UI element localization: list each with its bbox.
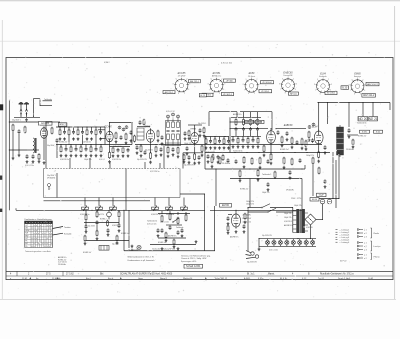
svg-text:0,5M 220 5n: 0,5M 220 5n bbox=[82, 141, 91, 143]
tube socket diagram EABC80 bbox=[279, 72, 297, 95]
wire bbox=[322, 204, 324, 220]
tube name V2 bbox=[105, 125, 113, 128]
wire bbox=[118, 218, 120, 224]
wire grid rail bbox=[56, 126, 105, 128]
capacitor C30 bbox=[256, 127, 259, 131]
capacitor C15 bbox=[127, 148, 130, 153]
legend row 5 bbox=[336, 239, 350, 242]
ground bbox=[116, 241, 119, 244]
wire bbox=[236, 112, 238, 117]
wire bbox=[312, 164, 314, 196]
svg-text:100pF 27k: 100pF 27k bbox=[262, 192, 270, 194]
capacitor C54 bbox=[107, 228, 110, 233]
wire bbox=[15, 208, 17, 210]
svg-text:7: 7 bbox=[280, 89, 281, 91]
resistor R60 bbox=[239, 170, 241, 178]
svg-text:ECC85: ECC85 bbox=[41, 122, 49, 125]
text ta chain 1 bbox=[160, 222, 169, 224]
wire transformer primary rail bbox=[292, 208, 294, 233]
capacitor C48 bbox=[299, 158, 302, 163]
capacitor C37 bbox=[207, 154, 210, 159]
svg-text:Masst.: Masst. bbox=[268, 273, 275, 276]
ground bbox=[115, 140, 118, 143]
legend row 4 bbox=[336, 236, 350, 239]
resistor R39 bbox=[205, 138, 207, 144]
wire bbox=[85, 210, 87, 215]
wire tast drop bbox=[128, 210, 130, 248]
wire bbox=[177, 212, 179, 215]
note above line bbox=[152, 248, 175, 251]
label label box14 ECC85 bbox=[39, 122, 53, 126]
lamp LA9 bbox=[137, 245, 141, 249]
svg-text:2: 2 bbox=[256, 79, 257, 81]
svg-text:Druck 2. Aufl.: Druck 2. Aufl. bbox=[338, 277, 351, 280]
ground bbox=[177, 247, 180, 250]
coil L1 ferrite bbox=[33, 138, 36, 153]
resistor R58 bbox=[283, 157, 285, 165]
text mixer values bbox=[113, 146, 121, 148]
svg-text:Tonblende: Tonblende bbox=[44, 99, 52, 101]
text tast 2 bbox=[100, 219, 107, 221]
resistor R70 bbox=[116, 235, 118, 242]
wire bbox=[82, 135, 84, 145]
text pot 4 bbox=[166, 214, 174, 216]
wire bbox=[68, 135, 70, 145]
wire dipole feed bbox=[40, 105, 52, 107]
trimmer CT3 bbox=[125, 126, 128, 129]
wire bbox=[228, 137, 230, 140]
resistor R11 bbox=[80, 146, 82, 152]
svg-text:ZF 460kHz: ZF 460kHz bbox=[222, 163, 230, 165]
svg-text:a 1: a 1 bbox=[364, 242, 367, 244]
resistor R78 bbox=[227, 225, 229, 232]
svg-text:ECH81 2: ECH81 2 bbox=[100, 219, 107, 221]
svg-text:ND 208-1: ND 208-1 bbox=[327, 93, 336, 95]
ground bbox=[308, 139, 311, 142]
wire bbox=[232, 136, 234, 138]
svg-text:ECH81 2a7: ECH81 2a7 bbox=[280, 149, 289, 151]
ground bbox=[267, 188, 270, 191]
wire left rail bbox=[8, 100, 10, 210]
node bbox=[257, 117, 258, 118]
resistor R72 bbox=[169, 213, 171, 221]
ground bbox=[77, 137, 80, 140]
svg-text:4,7k 0,1: 4,7k 0,1 bbox=[99, 159, 105, 161]
wire bbox=[100, 138, 106, 140]
svg-text:ECH81 2a7: ECH81 2a7 bbox=[240, 189, 248, 191]
text lamp rail bbox=[262, 235, 272, 237]
wire rail 1 bbox=[230, 144, 322, 146]
dial lamp LA7 bbox=[304, 239, 308, 246]
ground bbox=[205, 146, 208, 149]
wire bbox=[131, 249, 133, 251]
text transformer taps bbox=[284, 213, 292, 227]
wire antenna loop left bbox=[33, 99, 35, 118]
tube socket diagram EF89 bbox=[243, 72, 261, 95]
text values 2 bbox=[82, 141, 91, 143]
wire bbox=[60, 145, 62, 148]
svg-text:ND 20: ND 20 bbox=[358, 117, 367, 121]
svg-text:a 1: a 1 bbox=[364, 254, 367, 256]
wire bbox=[348, 103, 350, 128]
wire bbox=[347, 134, 358, 136]
svg-text:ZF 460kHz: ZF 460kHz bbox=[58, 264, 66, 266]
svg-text:Tg. 61: Tg. 61 bbox=[318, 278, 325, 280]
svg-text:Ers.f.: Ers.f. bbox=[86, 277, 91, 280]
resistor R40 bbox=[214, 138, 216, 144]
resistor R57 bbox=[259, 157, 261, 165]
resistor R1 bbox=[12, 124, 14, 132]
label label box8 ZF 305-1 bbox=[259, 90, 272, 93]
ground ant bbox=[25, 118, 28, 121]
resistor R13 bbox=[100, 146, 102, 152]
svg-text:Kontakte: Kontakte bbox=[64, 232, 71, 235]
resistor R55 bbox=[243, 156, 245, 164]
label label box3 ZF 301 bbox=[202, 93, 213, 96]
svg-text:x: x bbox=[32, 246, 33, 248]
ground bbox=[183, 160, 186, 163]
svg-text:0,5M 220 5n: 0,5M 220 5n bbox=[58, 262, 67, 264]
resistor R7 bbox=[86, 129, 88, 135]
wire bbox=[59, 127, 61, 130]
ground bbox=[107, 233, 110, 236]
ground bbox=[211, 165, 214, 168]
resistor R38 bbox=[257, 138, 259, 144]
svg-text:Gepr.: Gepr. bbox=[138, 277, 144, 280]
text tast 5 bbox=[83, 252, 91, 254]
wire tie 2 bbox=[166, 224, 182, 226]
potentiometer P4 bbox=[152, 206, 159, 211]
wire B+ drop 2 bbox=[335, 160, 337, 208]
label label box6 ZF 300 bbox=[224, 79, 236, 82]
resistor R74 bbox=[185, 214, 187, 222]
ground bbox=[108, 160, 111, 163]
svg-text:100pF 27k: 100pF 27k bbox=[294, 205, 302, 207]
dial lamp LA6 bbox=[298, 239, 302, 246]
text v2 values bbox=[112, 159, 121, 161]
wire bbox=[247, 136, 249, 138]
capacitor C40 bbox=[286, 131, 289, 136]
svg-text:3: 3 bbox=[296, 83, 297, 85]
capacitor C62 bbox=[227, 216, 230, 221]
svg-text:100pF 27k: 100pF 27k bbox=[84, 159, 92, 161]
label label box21 B 40 bbox=[374, 130, 383, 133]
svg-text:Werkst.14: Werkst.14 bbox=[183, 277, 193, 280]
resistor R46 bbox=[281, 136, 283, 144]
wire rail 0 bbox=[164, 144, 230, 146]
svg-text:SCHALTPLAN AT-SUPER 97a/3D A: SCHALTPLAN AT-SUPER 97a/3D Ausf. 4001-45… bbox=[120, 273, 173, 276]
wire V2 anode up bbox=[109, 123, 111, 130]
wire drop to note line bbox=[204, 194, 206, 251]
wire NF rail 2 bbox=[230, 178, 302, 180]
svg-text:Kondensatoren in pF, keramisch: Kondensatoren in pF, keramisch bbox=[128, 259, 155, 262]
wire rect out bbox=[316, 219, 323, 221]
svg-text:9: 9 bbox=[246, 79, 247, 81]
wire note line bbox=[124, 250, 215, 252]
wire tie 1 bbox=[158, 213, 190, 215]
wire tie 4 bbox=[150, 244, 196, 246]
text tastatur values bbox=[88, 226, 96, 228]
svg-text:4,7k 0,1 10: 4,7k 0,1 10 bbox=[166, 111, 174, 113]
capacitor C10 bbox=[85, 147, 88, 152]
ground bbox=[12, 157, 15, 160]
svg-text:x: x bbox=[38, 228, 39, 230]
svg-text:9: 9 bbox=[176, 79, 177, 81]
ground bbox=[84, 242, 87, 245]
wire bbox=[65, 145, 67, 148]
IF transformer block T1 bbox=[166, 118, 181, 146]
ground bbox=[160, 153, 163, 156]
svg-text:a 1: a 1 bbox=[364, 229, 367, 231]
wire antenna loop top bbox=[34, 98, 41, 100]
resistor R51 bbox=[318, 151, 320, 159]
tube name V3 bbox=[145, 126, 151, 129]
trimmer CT7 bbox=[308, 126, 311, 129]
capacitor C9 bbox=[75, 147, 78, 152]
ground bbox=[186, 152, 189, 155]
capacitor C43 bbox=[324, 145, 327, 150]
wire bus dots bbox=[231, 116, 261, 118]
ground bbox=[184, 137, 187, 140]
wire bbox=[304, 165, 306, 169]
capacitor C21 bbox=[172, 147, 175, 152]
resistor R32 bbox=[235, 118, 237, 125]
capacitor C56 bbox=[161, 228, 164, 233]
svg-text:ECC85: ECC85 bbox=[178, 72, 186, 75]
tube V7 magic eye bbox=[232, 212, 241, 228]
capacitor C47 bbox=[267, 159, 270, 164]
svg-text:4: 4 bbox=[223, 89, 224, 91]
resistor R14 bbox=[109, 151, 111, 159]
resistor R79 bbox=[312, 157, 314, 165]
title row 2 bbox=[10, 277, 374, 280]
wire bbox=[214, 137, 216, 140]
capacitor C1 bbox=[18, 129, 21, 134]
wire drop c bbox=[109, 162, 111, 169]
svg-text:ANZ 410-2: ANZ 410-2 bbox=[367, 83, 378, 86]
resistor R31 bbox=[203, 127, 205, 134]
svg-text:ZF 460kHz: ZF 460kHz bbox=[286, 190, 294, 192]
resistor R28 bbox=[201, 145, 203, 153]
wire drop d bbox=[144, 162, 146, 169]
switch S1 bbox=[172, 218, 179, 223]
ground bbox=[201, 154, 204, 157]
wire detector rail bbox=[276, 128, 306, 130]
wire drop e bbox=[159, 163, 161, 169]
ground bbox=[173, 245, 176, 248]
ground bbox=[286, 138, 289, 141]
svg-text:3: 3 bbox=[259, 84, 260, 86]
svg-text:3: 3 bbox=[331, 84, 332, 86]
resistor R69 bbox=[118, 211, 120, 218]
svg-text:ECH81 2a7: ECH81 2a7 bbox=[358, 136, 366, 138]
capacitor C20 bbox=[139, 120, 142, 125]
wire HT link bbox=[318, 198, 339, 200]
connector box X2 bbox=[99, 246, 109, 251]
ground bbox=[96, 237, 99, 240]
resistor R75 bbox=[165, 232, 167, 239]
resistor R45 bbox=[263, 145, 265, 153]
legend row 3 bbox=[336, 234, 350, 237]
resistor R68 bbox=[107, 220, 109, 227]
resistor R19 bbox=[122, 147, 124, 153]
ground bbox=[85, 230, 88, 233]
wire bbox=[228, 214, 232, 216]
svg-text:x: x bbox=[49, 235, 50, 237]
connector pin Radio 3 bbox=[358, 236, 367, 239]
wire bbox=[250, 131, 252, 136]
resistor R63 bbox=[38, 153, 40, 160]
wire bbox=[252, 136, 254, 138]
capacitor C17 bbox=[144, 150, 147, 155]
svg-text:ANZ 411-2: ANZ 411-2 bbox=[363, 94, 375, 97]
svg-text:Gemessen mit Röhrenvoltmeter g: Gemessen mit Röhrenvoltmeter geg. bbox=[181, 254, 211, 257]
svg-text:ND 21: ND 21 bbox=[369, 117, 378, 121]
leader label 2 bbox=[64, 232, 71, 235]
ground bbox=[242, 145, 245, 148]
capacitor C64 bbox=[324, 179, 327, 184]
wire bbox=[96, 225, 98, 231]
text values 5 bbox=[99, 159, 105, 161]
ground bbox=[214, 146, 217, 149]
ground bbox=[289, 176, 292, 179]
label label box20 B 391 bbox=[360, 130, 370, 133]
label label box17 ZF 10 bbox=[255, 120, 264, 123]
resistor R3 bbox=[51, 127, 53, 135]
capacitor C52 bbox=[85, 224, 88, 229]
resistor R59 bbox=[291, 158, 293, 166]
ground bbox=[324, 185, 327, 188]
jack J2 bbox=[107, 210, 112, 220]
resistor R37 bbox=[247, 138, 249, 144]
note meas 3 bbox=[181, 261, 197, 263]
ground bbox=[239, 179, 242, 182]
label label box13 ANZ 411-2 bbox=[362, 94, 376, 98]
wire switch out 2 bbox=[276, 211, 293, 213]
ground bbox=[18, 154, 21, 157]
capacitor C38 bbox=[217, 155, 220, 160]
wire bbox=[183, 152, 203, 154]
label label box19 ND 21 bbox=[369, 117, 378, 121]
svg-text:B 391: B 391 bbox=[362, 131, 367, 133]
svg-text:4,7k 0,1 10n: 4,7k 0,1 10n bbox=[221, 63, 232, 65]
ground bbox=[100, 154, 103, 157]
potentiometer P2 bbox=[96, 206, 103, 211]
wire V4 anode bbox=[194, 125, 196, 131]
electrolytic C51 bbox=[327, 199, 332, 204]
text trafo top bbox=[294, 205, 302, 207]
ground bbox=[43, 161, 46, 164]
antenna A2 bbox=[24, 102, 29, 117]
note meas 1 bbox=[181, 254, 211, 257]
wire input bus bbox=[14, 116, 40, 118]
text ta values bbox=[147, 221, 157, 226]
ground bbox=[305, 148, 308, 151]
bridge rectifier GR1 bbox=[305, 214, 316, 225]
wire riser 2 bbox=[250, 112, 252, 118]
wire pot feed bbox=[183, 198, 185, 206]
trimmer CT5 bbox=[172, 113, 175, 116]
capacitor C26 bbox=[199, 128, 202, 133]
svg-text:100pF 27k: 100pF 27k bbox=[284, 213, 292, 215]
ground bbox=[223, 146, 226, 149]
text bit b bbox=[262, 192, 270, 194]
tube V1 bbox=[41, 126, 48, 140]
svg-text:NF 101: NF 101 bbox=[290, 93, 297, 95]
title row 1 bbox=[10, 273, 354, 276]
resistor R73 bbox=[177, 217, 179, 225]
svg-text:Drucktasten u. Kontaktbelegung: Drucktasten u. Kontaktbelegung bbox=[25, 218, 52, 221]
text tast 7 bbox=[112, 244, 120, 246]
svg-text:EF89: EF89 bbox=[249, 72, 255, 75]
svg-text:ZF 300: ZF 300 bbox=[226, 80, 233, 82]
wire bbox=[230, 128, 268, 130]
wire bbox=[100, 145, 102, 148]
ground bbox=[99, 137, 102, 140]
wire pot feed bbox=[168, 198, 170, 206]
svg-text:x: x bbox=[45, 235, 46, 237]
wire drop b bbox=[89, 158, 91, 169]
ground bbox=[283, 166, 286, 169]
svg-text:50µ 350V 1: 50µ 350V 1 bbox=[198, 123, 206, 125]
wire bbox=[271, 112, 273, 130]
ground bbox=[243, 165, 246, 168]
node bbox=[236, 117, 237, 118]
text T1 bbox=[166, 111, 174, 113]
ground bbox=[243, 230, 246, 233]
label label box5 B 21 bbox=[199, 94, 206, 97]
ground bbox=[167, 155, 170, 158]
text ta chain 3 bbox=[158, 242, 166, 244]
svg-text:Schalt 12/61: Schalt 12/61 bbox=[186, 264, 201, 268]
svg-text:x: x bbox=[38, 243, 39, 245]
trimmer CT2 bbox=[122, 128, 125, 131]
resistor R16 bbox=[125, 133, 127, 141]
wire riser 1 bbox=[243, 112, 245, 118]
resistor R47 bbox=[291, 137, 293, 145]
text EM80 pins bbox=[243, 215, 252, 224]
svg-text:4: 4 bbox=[188, 89, 189, 91]
svg-text:31 F 22: 31 F 22 bbox=[340, 261, 346, 263]
wire AVC rail 2 bbox=[240, 111, 272, 113]
wire bbox=[137, 126, 150, 128]
svg-text:Tastatur: Tastatur bbox=[64, 226, 71, 229]
trimmer CT4 bbox=[167, 115, 170, 118]
note resistors bbox=[128, 256, 154, 259]
resistor R54 bbox=[219, 157, 221, 165]
svg-text:EM80: EM80 bbox=[354, 73, 361, 76]
ground bbox=[258, 248, 261, 251]
svg-text:Demod-NF: Demod-NF bbox=[283, 75, 293, 77]
ground bbox=[165, 239, 168, 242]
resistor R2 bbox=[24, 126, 26, 134]
svg-text:2: 2 bbox=[293, 78, 294, 80]
ground bbox=[177, 155, 180, 158]
ground bbox=[348, 135, 351, 138]
svg-text:50µ 350V: 50µ 350V bbox=[88, 226, 96, 228]
wire bbox=[80, 145, 82, 148]
wire bbox=[70, 145, 72, 148]
svg-text:50µ 350V 1W: 50µ 350V 1W bbox=[137, 159, 147, 161]
legend row 2 bbox=[336, 231, 350, 234]
ground bbox=[281, 144, 284, 147]
text box right bbox=[150, 171, 159, 173]
wire leader 2 bbox=[53, 233, 64, 235]
svg-text:2: 2 bbox=[186, 79, 187, 81]
ground bbox=[85, 154, 88, 157]
node bbox=[250, 117, 251, 118]
svg-text:6: 6 bbox=[285, 93, 286, 95]
